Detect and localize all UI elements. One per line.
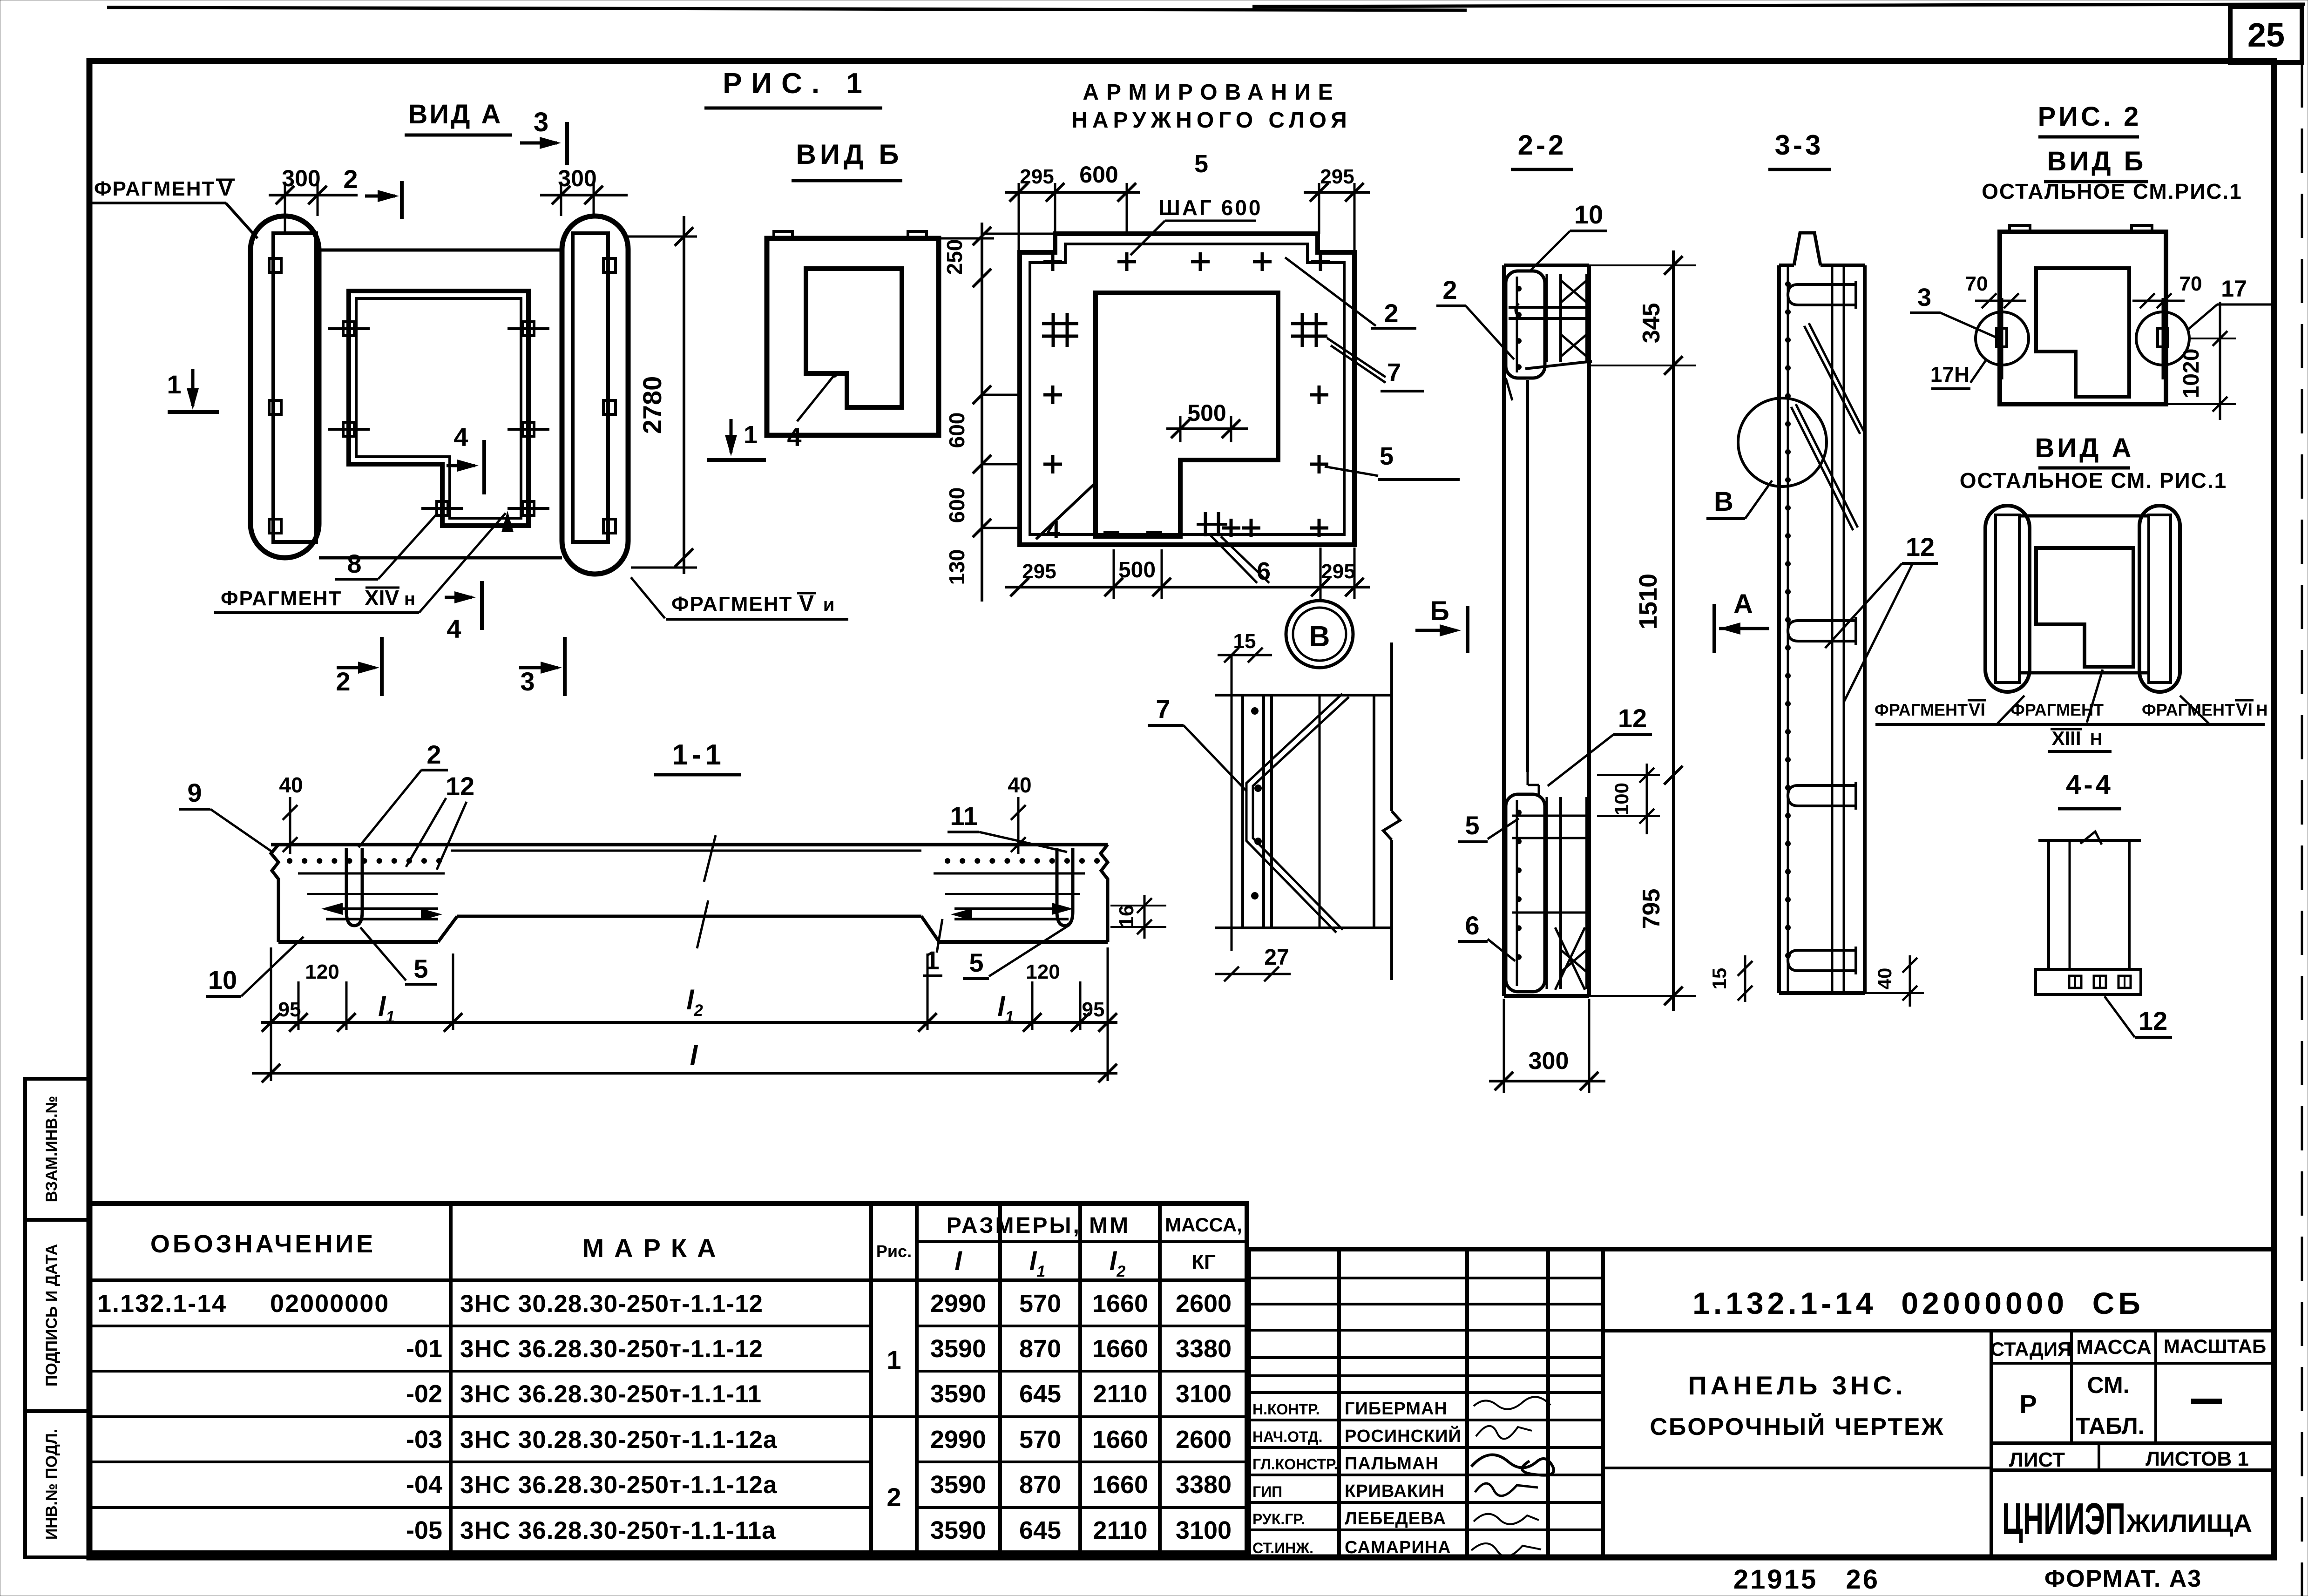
svg-text:РАЗМЕРЫ, ММ: РАЗМЕРЫ, ММ <box>947 1213 1130 1238</box>
svg-text:1: 1 <box>167 370 181 399</box>
svg-text:300: 300 <box>558 165 596 191</box>
svg-text:3НС 36.28.30-250т-1.1-12а: 3НС 36.28.30-250т-1.1-12а <box>460 1471 778 1499</box>
svg-text:3380: 3380 <box>1176 1471 1232 1499</box>
svg-text:295: 295 <box>1321 560 1355 583</box>
svg-text:l1: l1 <box>378 992 395 1026</box>
svg-text:600: 600 <box>1079 162 1118 188</box>
svg-text:15: 15 <box>1708 968 1730 990</box>
svg-text:ЛЕБЕДЕВА: ЛЕБЕДЕВА <box>1345 1509 1446 1528</box>
svg-text:-05: -05 <box>406 1516 442 1544</box>
svg-text:645: 645 <box>1019 1380 1061 1408</box>
svg-text:12: 12 <box>1618 703 1647 733</box>
svg-text:ФРАГМЕНТ: ФРАГМЕНТ <box>94 177 215 200</box>
svg-text:1.132.1-14 02000000 СБ: 1.132.1-14 02000000 СБ <box>1692 1286 2144 1320</box>
svg-text:02000000: 02000000 <box>270 1290 389 1318</box>
svg-text:4: 4 <box>1046 516 1060 544</box>
svg-text:ФРАГМЕНТ: ФРАГМЕНТ <box>1875 700 1968 719</box>
svg-text:16: 16 <box>1115 905 1138 928</box>
svg-text:-01: -01 <box>406 1335 442 1363</box>
svg-text:н: н <box>404 589 415 609</box>
svg-text:3НС 36.28.30-250т-1.1-11: 3НС 36.28.30-250т-1.1-11 <box>460 1380 762 1408</box>
svg-text:1660: 1660 <box>1092 1290 1148 1318</box>
svg-text:70: 70 <box>1965 272 1988 295</box>
svg-text:2: 2 <box>887 1482 901 1512</box>
svg-text:600: 600 <box>945 487 969 523</box>
svg-text:l1: l1 <box>1029 1246 1045 1280</box>
svg-text:3НС 30.28.30-250т-1.1-12: 3НС 30.28.30-250т-1.1-12 <box>460 1290 763 1318</box>
svg-text:2: 2 <box>1442 275 1457 304</box>
svg-text:ВИД А: ВИД А <box>408 99 503 129</box>
svg-text:l: l <box>690 1040 698 1071</box>
svg-text:5: 5 <box>1380 442 1394 470</box>
svg-text:4-4: 4-4 <box>2066 770 2113 800</box>
svg-text:5: 5 <box>969 948 983 977</box>
svg-text:ВИД Б: ВИД Б <box>2047 146 2146 176</box>
svg-text:l2: l2 <box>1110 1246 1126 1280</box>
svg-text:и: и <box>823 595 835 615</box>
svg-text:-03: -03 <box>406 1426 442 1454</box>
svg-text:2600: 2600 <box>1176 1426 1232 1454</box>
svg-text:СТАДИЯ: СТАДИЯ <box>1990 1338 2071 1360</box>
svg-text:ЦНИИЭП: ЦНИИЭП <box>2002 1494 2125 1544</box>
svg-text:ГИБЕРМАН: ГИБЕРМАН <box>1345 1399 1448 1419</box>
svg-text:100: 100 <box>1611 783 1632 815</box>
svg-text:3НС 36.28.30-250т-1.1-12: 3НС 36.28.30-250т-1.1-12 <box>460 1335 763 1363</box>
svg-text:3: 3 <box>534 107 548 137</box>
svg-text:17Н: 17Н <box>1930 362 1970 386</box>
svg-text:РИС. 2: РИС. 2 <box>2038 101 2142 132</box>
svg-text:4: 4 <box>447 614 461 643</box>
svg-text:12: 12 <box>446 771 474 801</box>
svg-text:645: 645 <box>1019 1516 1061 1544</box>
svg-text:ПАНЕЛЬ 3НС.: ПАНЕЛЬ 3НС. <box>1688 1371 1906 1400</box>
svg-text:3590: 3590 <box>930 1335 986 1363</box>
svg-text:1660: 1660 <box>1092 1335 1148 1363</box>
svg-text:12: 12 <box>2139 1006 2167 1035</box>
svg-text:2990: 2990 <box>930 1426 986 1454</box>
svg-text:СТ.ИНЖ.: СТ.ИНЖ. <box>1252 1540 1313 1556</box>
svg-text:СМ.: СМ. <box>2087 1372 2130 1398</box>
svg-text:ОСТАЛЬНОЕ СМ. РИС.1: ОСТАЛЬНОЕ СМ. РИС.1 <box>1960 468 2227 493</box>
svg-text:l1: l1 <box>997 992 1014 1026</box>
svg-text:ФРАГМЕНТ: ФРАГМЕНТ <box>671 593 792 615</box>
svg-text:6: 6 <box>1465 911 1479 940</box>
svg-text:l2: l2 <box>686 985 703 1020</box>
svg-text:3НС 36.28.30-250т-1.1-11а: 3НС 36.28.30-250т-1.1-11а <box>460 1517 776 1544</box>
svg-text:3590: 3590 <box>930 1380 986 1408</box>
svg-text:АРМИРОВАНИЕ: АРМИРОВАНИЕ <box>1083 80 1340 105</box>
svg-text:2990: 2990 <box>930 1290 986 1318</box>
svg-text:600: 600 <box>945 413 969 448</box>
svg-text:295: 295 <box>1022 560 1056 583</box>
svg-text:300: 300 <box>282 165 320 191</box>
svg-text:РОСИНСКИЙ: РОСИНСКИЙ <box>1345 1425 1462 1446</box>
svg-text:Н.КОНТР.: Н.КОНТР. <box>1252 1401 1320 1418</box>
svg-text:1: 1 <box>887 1345 901 1374</box>
svg-text:НАРУЖНОГО СЛОЯ: НАРУЖНОГО СЛОЯ <box>1071 108 1352 133</box>
svg-text:8: 8 <box>347 549 361 578</box>
svg-text:1-1: 1-1 <box>672 739 725 771</box>
svg-text:МАССА,: МАССА, <box>1165 1214 1242 1236</box>
svg-text:РИС. 1: РИС. 1 <box>723 68 872 100</box>
svg-text:7: 7 <box>1387 358 1401 386</box>
svg-text:2780: 2780 <box>637 376 667 434</box>
svg-text:ВИД А: ВИД А <box>2035 433 2134 463</box>
svg-text:Н: Н <box>2256 702 2268 719</box>
svg-text:1020: 1020 <box>2179 349 2204 399</box>
svg-text:95: 95 <box>1082 998 1105 1021</box>
svg-text:250: 250 <box>942 239 967 275</box>
svg-text:Н: Н <box>2090 730 2102 749</box>
svg-text:345: 345 <box>1638 303 1665 344</box>
svg-text:300: 300 <box>1529 1048 1569 1075</box>
svg-text:3380: 3380 <box>1176 1335 1232 1363</box>
svg-text:ФРАГМЕНТ: ФРАГМЕНТ <box>221 587 342 610</box>
svg-text:ОБОЗНАЧЕНИЕ: ОБОЗНАЧЕНИЕ <box>150 1230 376 1258</box>
svg-text:5: 5 <box>413 954 428 983</box>
svg-text:27: 27 <box>1264 945 1289 970</box>
svg-text:-02: -02 <box>406 1380 442 1408</box>
svg-text:XIII: XIII <box>2051 727 2081 749</box>
svg-text:ФОРМАТ. А3: ФОРМАТ. А3 <box>2044 1565 2202 1592</box>
svg-text:СБОРОЧНЫЙ ЧЕРТЕЖ: СБОРОЧНЫЙ ЧЕРТЕЖ <box>1650 1413 1944 1440</box>
svg-text:570: 570 <box>1019 1426 1061 1454</box>
svg-text:3590: 3590 <box>930 1516 986 1544</box>
svg-text:795: 795 <box>1638 889 1665 929</box>
svg-text:VI: VI <box>2236 700 2253 720</box>
svg-text:7: 7 <box>1156 694 1170 724</box>
svg-text:САМАРИНА: САМАРИНА <box>1345 1538 1451 1557</box>
svg-text:МАСШТАБ: МАСШТАБ <box>2164 1335 2266 1357</box>
svg-text:В: В <box>1309 621 1330 653</box>
svg-text:5: 5 <box>1465 811 1479 840</box>
svg-text:V: V <box>799 591 814 616</box>
svg-text:5: 5 <box>1194 150 1208 178</box>
svg-text:3НС 30.28.30-250т-1.1-12а: 3НС 30.28.30-250т-1.1-12а <box>460 1426 778 1454</box>
svg-text:12: 12 <box>1906 532 1935 561</box>
svg-text:VI: VI <box>1969 700 1985 720</box>
svg-text:-04: -04 <box>406 1471 442 1499</box>
svg-text:870: 870 <box>1019 1471 1061 1499</box>
svg-text:11: 11 <box>950 801 977 831</box>
svg-text:120: 120 <box>1026 960 1060 983</box>
svg-text:1660: 1660 <box>1092 1471 1148 1499</box>
svg-text:КГ: КГ <box>1191 1251 1216 1273</box>
svg-text:МАРКА: МАРКА <box>582 1233 726 1263</box>
svg-text:l: l <box>954 1246 962 1276</box>
svg-text:ЛИСТОВ 1: ЛИСТОВ 1 <box>2146 1447 2249 1470</box>
svg-text:ИНВ.№ ПОДЛ.: ИНВ.№ ПОДЛ. <box>43 1429 61 1540</box>
svg-text:500: 500 <box>1118 558 1156 582</box>
svg-text:25: 25 <box>2247 17 2285 54</box>
svg-text:МАССА: МАССА <box>2076 1336 2152 1359</box>
svg-text:ОСТАЛЬНОЕ СМ.РИС.1: ОСТАЛЬНОЕ СМ.РИС.1 <box>1982 179 2242 203</box>
svg-text:А: А <box>1733 589 1753 619</box>
svg-text:КРИВАКИН: КРИВАКИН <box>1345 1481 1445 1501</box>
svg-text:ЖИЛИЩА: ЖИЛИЩА <box>2126 1509 2252 1537</box>
svg-text:10: 10 <box>1574 200 1603 229</box>
svg-text:ВИД Б: ВИД Б <box>796 139 903 170</box>
svg-text:ПАЛЬМАН: ПАЛЬМАН <box>1345 1454 1439 1474</box>
svg-text:570: 570 <box>1019 1290 1061 1318</box>
svg-text:9: 9 <box>187 778 202 807</box>
svg-text:Р: Р <box>2019 1389 2037 1419</box>
svg-text:2: 2 <box>343 164 358 194</box>
svg-text:295: 295 <box>1320 165 1354 188</box>
svg-text:2: 2 <box>336 667 350 696</box>
svg-text:ГЛ.КОНСТР.: ГЛ.КОНСТР. <box>1252 1456 1338 1473</box>
svg-text:ГИП: ГИП <box>1252 1483 1282 1500</box>
svg-text:ВЗАМ.ИНВ.№: ВЗАМ.ИНВ.№ <box>43 1096 61 1203</box>
svg-text:Б: Б <box>1430 596 1449 626</box>
svg-text:XIV: XIV <box>365 586 399 610</box>
svg-text:ТАБЛ.: ТАБЛ. <box>2076 1413 2144 1439</box>
svg-text:2: 2 <box>426 740 441 769</box>
svg-text:3: 3 <box>520 667 535 696</box>
svg-text:1: 1 <box>744 421 758 449</box>
svg-text:40: 40 <box>1008 773 1031 797</box>
svg-text:17: 17 <box>2221 276 2247 302</box>
svg-text:21915 26: 21915 26 <box>1733 1564 1880 1595</box>
svg-text:4: 4 <box>453 422 468 452</box>
svg-text:1510: 1510 <box>1634 574 1662 629</box>
svg-text:870: 870 <box>1019 1335 1061 1363</box>
svg-text:НАЧ.ОТД.: НАЧ.ОТД. <box>1252 1428 1322 1445</box>
svg-text:3-3: 3-3 <box>1775 129 1824 161</box>
svg-text:2110: 2110 <box>1093 1516 1147 1544</box>
svg-text:3590: 3590 <box>930 1471 986 1499</box>
svg-text:3: 3 <box>1917 284 1931 311</box>
svg-text:40: 40 <box>279 773 303 797</box>
svg-text:2110: 2110 <box>1093 1380 1147 1408</box>
svg-text:500: 500 <box>1187 400 1226 426</box>
svg-text:4: 4 <box>787 422 801 452</box>
svg-text:10: 10 <box>208 965 237 994</box>
svg-text:Рис.: Рис. <box>876 1242 912 1261</box>
svg-text:40: 40 <box>1874 968 1895 990</box>
svg-text:120: 120 <box>305 960 339 983</box>
svg-text:2: 2 <box>1384 298 1398 328</box>
svg-text:2600: 2600 <box>1176 1290 1232 1318</box>
svg-text:1.132.1-14: 1.132.1-14 <box>97 1290 227 1318</box>
svg-text:РУК.ГР.: РУК.ГР. <box>1252 1511 1305 1528</box>
svg-text:ПОДПИСЬ И ДАТА: ПОДПИСЬ И ДАТА <box>43 1244 61 1386</box>
svg-text:1660: 1660 <box>1092 1426 1148 1454</box>
svg-text:295: 295 <box>1020 165 1054 188</box>
svg-text:70: 70 <box>2179 272 2202 295</box>
svg-text:ШАГ 600: ШАГ 600 <box>1158 196 1262 220</box>
svg-text:ЛИСТ: ЛИСТ <box>2009 1448 2065 1471</box>
svg-text:2-2: 2-2 <box>1518 129 1567 161</box>
svg-text:В: В <box>1714 487 1733 517</box>
svg-text:130: 130 <box>945 549 969 585</box>
svg-text:3100: 3100 <box>1176 1380 1232 1408</box>
svg-text:3100: 3100 <box>1176 1516 1232 1544</box>
